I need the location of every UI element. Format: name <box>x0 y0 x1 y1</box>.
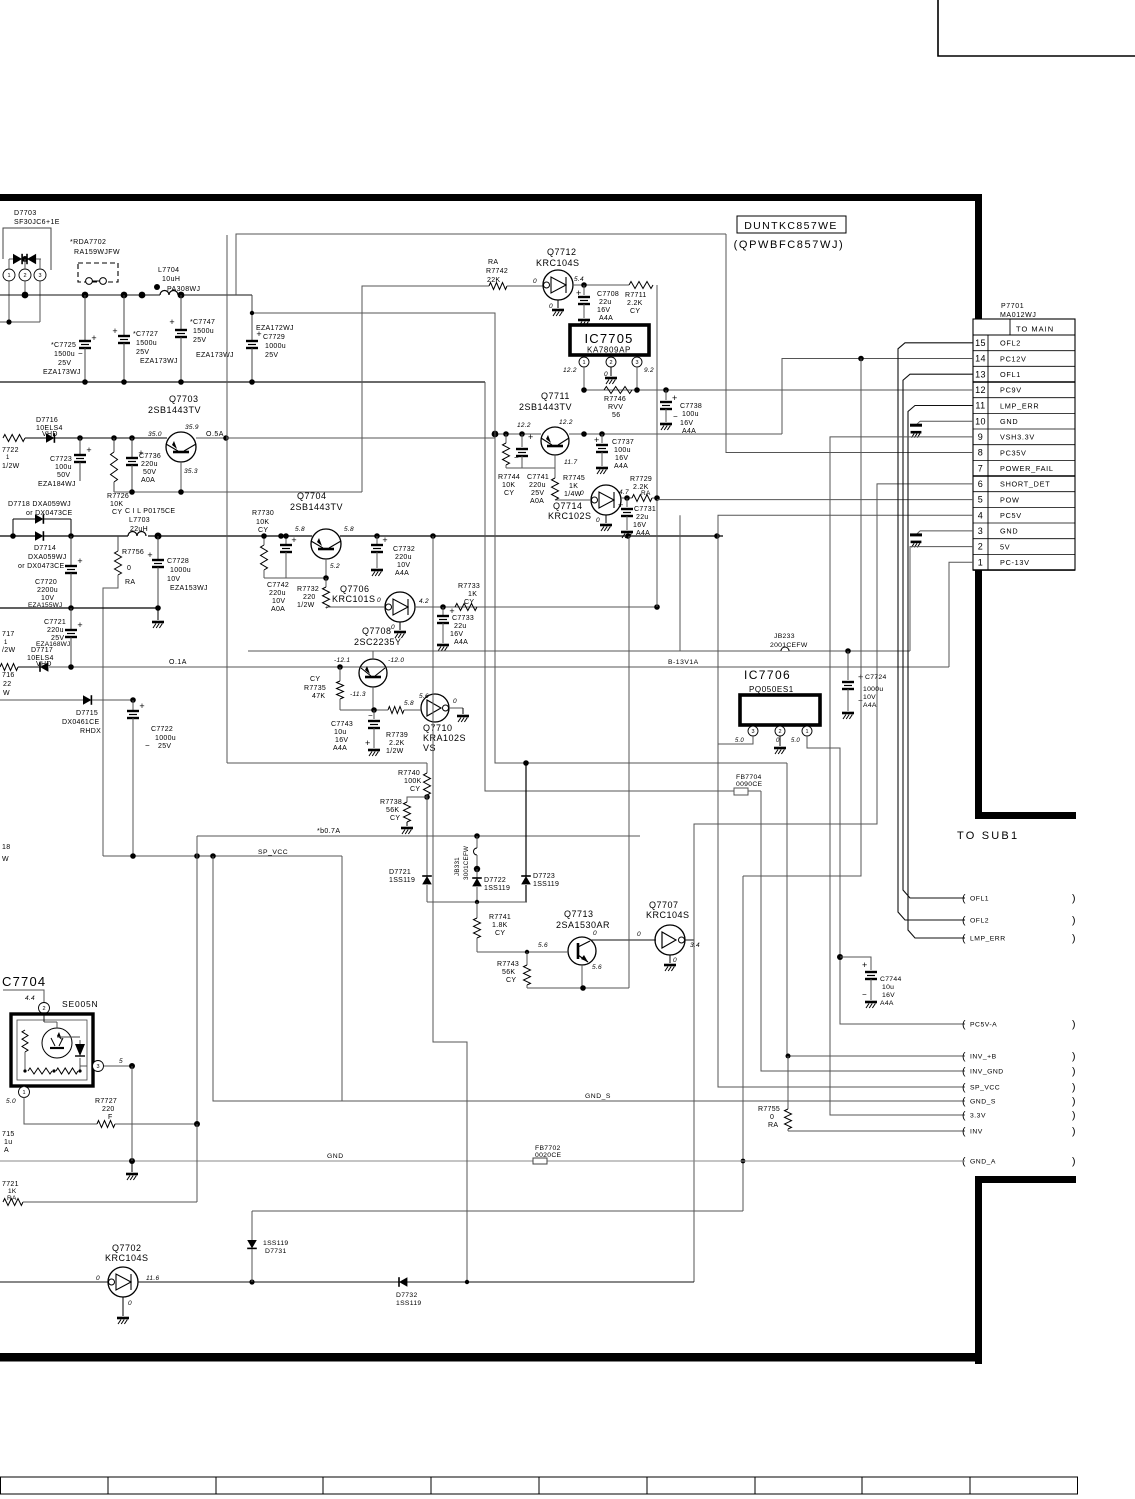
ground at C7728 <box>157 608 159 620</box>
wire GND_S rail x213 <box>213 856 965 1101</box>
transistor Q7709 <box>334 657 404 687</box>
svg-text:SF30JC6+1E: SF30JC6+1E <box>14 219 60 226</box>
svg-text:GND_S: GND_S <box>970 1099 996 1106</box>
wire Q7711 emitter net y434 <box>495 433 541 435</box>
svg-text:50V: 50V <box>143 469 156 476</box>
svg-text:POW: POW <box>1000 495 1020 504</box>
wire Q7713 emitter <box>581 964 583 988</box>
svg-text:D7714: D7714 <box>34 545 56 552</box>
svg-text:5: 5 <box>119 1058 123 1065</box>
svg-text:1SS119: 1SS119 <box>484 885 510 892</box>
wire PC5V rail x718 <box>718 515 973 763</box>
resistor R7742 22K RA <box>486 259 543 290</box>
svg-text:C7728: C7728 <box>167 558 189 565</box>
svg-text:220u: 220u <box>395 554 412 561</box>
border frame TO SUB1 upper stub <box>975 812 1076 819</box>
resistor R7711 2.2K CY <box>625 282 653 316</box>
border frame right bar upper <box>975 194 982 819</box>
svg-text:1000u: 1000u <box>170 567 191 574</box>
svg-text:2: 2 <box>42 1006 45 1012</box>
resistor R7717 partial <box>0 631 40 671</box>
svg-text:1/2W: 1/2W <box>386 748 404 755</box>
svg-text:100K: 100K <box>404 778 422 785</box>
svg-text:6: 6 <box>978 479 983 489</box>
svg-text:INV_+B: INV_+B <box>970 1054 997 1061</box>
capacitor C7728 1000u 10V EZA153WJ <box>147 536 207 608</box>
svg-text:C7738: C7738 <box>680 403 702 410</box>
svg-text:A4A: A4A <box>863 702 877 709</box>
svg-text:IC7706: IC7706 <box>744 668 791 682</box>
svg-text:1K: 1K <box>569 483 578 490</box>
svg-text:KRC101S: KRC101S <box>332 594 376 604</box>
svg-text:3: 3 <box>978 526 983 536</box>
capacitor C7738 100u 16V A4A <box>660 390 702 435</box>
jumper JB331 3001CEFW <box>454 836 480 880</box>
svg-text:(: ( <box>962 915 966 927</box>
svg-text:OFL2: OFL2 <box>970 918 989 925</box>
svg-text:-12.0: -12.0 <box>388 657 404 664</box>
wire PC12V rail x861 down <box>743 359 861 877</box>
diode D7714 DXA059WJ <box>0 531 67 570</box>
svg-text:716: 716 <box>2 672 15 679</box>
svg-text:25V: 25V <box>136 349 149 356</box>
svg-text:FB7704: FB7704 <box>736 774 762 781</box>
svg-text:3.4: 3.4 <box>690 942 700 949</box>
svg-text:3: 3 <box>751 729 754 735</box>
svg-text:10K: 10K <box>110 501 123 508</box>
capacitor C7722 1000u 25V <box>127 697 176 856</box>
capacitor C7736 220u 50V A0A <box>126 438 161 492</box>
svg-text:W: W <box>2 856 9 863</box>
svg-text:C I L P0175CE: C I L P0175CE <box>125 508 175 515</box>
svg-text:R7738: R7738 <box>380 799 402 806</box>
pin3 PC7704 <box>93 1058 136 1072</box>
svg-text:C7729: C7729 <box>263 334 285 341</box>
svg-text:4: 4 <box>978 510 983 520</box>
svg-text:SP_VCC: SP_VCC <box>970 1085 1000 1092</box>
resistor R7743 56K CY <box>497 952 531 988</box>
svg-text:(: ( <box>962 1066 966 1078</box>
svg-text:CY: CY <box>630 308 640 315</box>
svg-text:16V: 16V <box>882 992 895 999</box>
wire SP_VCC y856 <box>103 855 342 857</box>
connector pins 1 2 3 of D7703 <box>3 259 46 322</box>
svg-text:(: ( <box>962 893 966 905</box>
svg-text:CY: CY <box>410 786 420 793</box>
ferrite bead FB7704 0090CE <box>734 774 763 795</box>
transistor Q7708 2SC2235Y <box>354 626 402 647</box>
wire Q7711 collector to PC12V <box>569 433 782 435</box>
svg-text:35.0: 35.0 <box>148 431 162 438</box>
capacitor C7729 1000u 25V EZA172WJ <box>246 295 294 382</box>
svg-text:5V: 5V <box>1000 542 1010 551</box>
svg-text:IC7705: IC7705 <box>584 331 633 346</box>
svg-text:0: 0 <box>580 490 584 497</box>
svg-text:+: + <box>291 535 296 545</box>
wire INV_+B from x787 <box>787 763 965 1056</box>
svg-text:RA: RA <box>488 259 498 266</box>
svg-text:7722: 7722 <box>2 447 19 454</box>
svg-text:1SS119: 1SS119 <box>389 877 415 884</box>
wire PC-13V pin1 <box>949 562 973 667</box>
svg-text:100u: 100u <box>682 411 699 418</box>
wire -13V bus y667 B-13V1A <box>49 666 949 668</box>
svg-text:4.2: 4.2 <box>419 598 429 605</box>
svg-text:W: W <box>3 690 10 697</box>
svg-text:EZA173WJ: EZA173WJ <box>196 352 234 359</box>
wire PC12V riser <box>782 359 973 435</box>
svg-text:2: 2 <box>609 360 612 366</box>
relay RDA7702 RA159WJFW <box>70 239 120 284</box>
border frame right bar lower <box>975 1176 982 1364</box>
capacitor C7731 22u 16V A4A <box>618 498 656 538</box>
ground IC7706 pin2 <box>779 736 781 746</box>
svg-text:1: 1 <box>978 557 983 567</box>
svg-text:CY: CY <box>112 509 122 516</box>
svg-text:D7716: D7716 <box>36 417 58 424</box>
svg-text:DUNTKC857WE: DUNTKC857WE <box>744 220 838 232</box>
ground Q7714 <box>605 515 607 523</box>
wire main 5V bus y536 <box>44 535 128 537</box>
svg-text:): ) <box>1072 1082 1076 1094</box>
wire Q7713 base y952 <box>477 951 568 953</box>
svg-text:9: 9 <box>978 432 983 442</box>
wire x487 rail from bus y382 <box>485 382 734 791</box>
inductor L7704 10uH PA308WJ <box>154 267 200 295</box>
svg-text:100u: 100u <box>55 464 72 471</box>
capacitor C7721 220u 25V EZA168WJ <box>36 608 83 667</box>
wire 0.7A y836 <box>197 835 640 837</box>
svg-text:Q7711: Q7711 <box>541 391 570 401</box>
svg-text:22u: 22u <box>599 299 612 306</box>
svg-text:18: 18 <box>2 844 10 851</box>
svg-text:JB233: JB233 <box>774 633 795 640</box>
capacitor C7741 220u 25V A0A <box>514 432 549 505</box>
svg-text:A4A: A4A <box>599 315 613 322</box>
wire Q7704 base net y578 <box>264 577 326 579</box>
svg-text:C7720: C7720 <box>35 579 57 586</box>
svg-text:10V: 10V <box>41 595 54 602</box>
svg-text:Q7713: Q7713 <box>564 909 594 919</box>
svg-text:POWER_FAIL: POWER_FAIL <box>1000 464 1054 473</box>
svg-text:0090CE: 0090CE <box>736 781 763 788</box>
svg-text:KA7809AP: KA7809AP <box>587 346 631 355</box>
svg-text:5.4: 5.4 <box>574 276 584 283</box>
svg-text:2001CEFW: 2001CEFW <box>770 642 808 649</box>
wire SP_VCC exit from x718 <box>718 744 965 1087</box>
svg-text:10V: 10V <box>167 576 180 583</box>
svg-text:TO MAIN: TO MAIN <box>1016 325 1054 334</box>
svg-text:MA012WJ: MA012WJ <box>1000 312 1037 319</box>
svg-text:B-13V1A: B-13V1A <box>668 659 699 666</box>
capacitor C7715 partial labels <box>2 1131 15 1154</box>
svg-text:GND: GND <box>327 1153 344 1160</box>
ground pin10 <box>910 421 973 437</box>
svg-text:PC12V: PC12V <box>1000 354 1027 363</box>
svg-text:Q7707: Q7707 <box>649 900 679 910</box>
wire PC9V y390 <box>584 389 973 391</box>
svg-text:Q7712: Q7712 <box>547 247 577 257</box>
capacitor C7733 22u 16V A4A <box>437 606 474 651</box>
svg-text:/2W: /2W <box>2 647 15 654</box>
inductor L7703 CILP0175CE 22uH <box>125 508 175 536</box>
svg-text:*C7725: *C7725 <box>51 342 76 349</box>
wire x495 rail from y313 <box>252 313 787 763</box>
IC7705 KA7809AP <box>563 325 654 374</box>
svg-text:2: 2 <box>23 273 26 279</box>
svg-text:KRA102S: KRA102S <box>423 733 466 743</box>
resistor R7721 1K RA <box>2 1124 197 1206</box>
diode D7723 1SS119 <box>521 760 559 902</box>
svg-text:PC9V: PC9V <box>1000 386 1022 395</box>
svg-text:R7735: R7735 <box>304 685 326 692</box>
svg-text:10V: 10V <box>272 598 285 605</box>
svg-text:C7741: C7741 <box>527 474 549 481</box>
svg-text:−: − <box>78 349 83 358</box>
capacitor C7720 2200u 10V EZA155WJ <box>28 536 83 609</box>
svg-text:5: 5 <box>978 495 983 505</box>
svg-text:25V: 25V <box>58 360 71 367</box>
svg-text:10u: 10u <box>882 984 894 991</box>
svg-text:220u: 220u <box>47 627 64 634</box>
wire 5V bus y536 right part <box>340 535 723 537</box>
svg-text:PA308WJ: PA308WJ <box>167 286 200 293</box>
transistor Q7707 KRC104S <box>646 900 700 955</box>
svg-text:INV: INV <box>970 1129 983 1136</box>
svg-text:D7732: D7732 <box>396 1292 418 1299</box>
svg-text:D7723: D7723 <box>533 873 555 880</box>
svg-text:TO SUB1: TO SUB1 <box>957 830 1019 842</box>
svg-text:0: 0 <box>391 624 395 631</box>
svg-text:1: 1 <box>6 455 10 461</box>
svg-text:16V: 16V <box>680 420 693 427</box>
svg-text:GND: GND <box>1000 417 1018 426</box>
svg-text:VSH3.3V: VSH3.3V <box>1000 433 1035 442</box>
resistor R7745 1K 1/4W <box>552 468 586 500</box>
resistor R7744 10K CY <box>498 434 520 497</box>
svg-text:1000u: 1000u <box>155 735 176 742</box>
ground Q7706 <box>399 622 401 630</box>
svg-text:22u: 22u <box>454 623 467 630</box>
wire Q7702 input <box>0 1281 108 1283</box>
wire IC7706 pin1 to PC5V-A <box>807 736 965 1024</box>
transistor Q7713 2SA1530AR <box>538 909 610 971</box>
svg-text:PC35V: PC35V <box>1000 448 1027 457</box>
svg-text:25V: 25V <box>265 352 278 359</box>
ground Q7712 emitter <box>557 300 559 308</box>
svg-text:1500u: 1500u <box>136 340 157 347</box>
transistor Q7704 2SB1443TV <box>290 491 354 570</box>
svg-text:GND_S: GND_S <box>585 1093 611 1100</box>
resistor R7739 2.2K 1/2W <box>386 700 414 755</box>
svg-text:1SS119: 1SS119 <box>533 881 559 888</box>
svg-text:3.3V: 3.3V <box>970 1113 986 1120</box>
svg-text:25V: 25V <box>531 490 544 497</box>
svg-text:-11.3: -11.3 <box>350 691 366 698</box>
svg-text:): ) <box>1072 1066 1076 1078</box>
svg-text:0: 0 <box>377 597 381 604</box>
diode D7715 DX0461CE RHDX <box>0 695 133 735</box>
svg-text:5.0: 5.0 <box>6 1098 16 1105</box>
wire Q7703 emitter out 0.5A <box>196 437 495 439</box>
diode D7716 10ELS4 VHD <box>25 417 63 443</box>
svg-text:A4A: A4A <box>395 570 409 577</box>
svg-text:+: + <box>169 317 174 327</box>
capacitor C7743 10u 16V A4A <box>331 710 380 756</box>
resistor R7741 1.8K CY <box>474 902 512 952</box>
transistor Q7710 KRA102S VS <box>404 693 469 753</box>
svg-text:(: ( <box>962 1019 966 1031</box>
wire OFL1 pin13 to exit <box>903 374 973 898</box>
svg-text:OFL2: OFL2 <box>1000 339 1021 348</box>
svg-text:0: 0 <box>549 303 553 310</box>
svg-text:11: 11 <box>975 401 985 411</box>
svg-text:3: 3 <box>38 273 41 279</box>
svg-text:14: 14 <box>975 354 986 364</box>
diode D7721 1SS119 <box>389 797 432 902</box>
resistor R7740 100K CY <box>227 763 431 795</box>
svg-text:15: 15 <box>975 338 986 348</box>
svg-text:1000u: 1000u <box>265 343 286 350</box>
resistor R7716 partial <box>2 672 15 697</box>
svg-text:9.2: 9.2 <box>644 367 654 374</box>
wire PC35V vertical <box>726 234 973 453</box>
svg-text:*b0.7A: *b0.7A <box>317 828 340 835</box>
svg-text:1u: 1u <box>4 1139 12 1146</box>
wire x743 down to Q7702 area <box>742 876 744 1211</box>
svg-text:22K: 22K <box>487 277 500 284</box>
svg-text:): ) <box>1072 1126 1076 1138</box>
ferrite bead FB7702 0020CE <box>533 1145 562 1164</box>
wire pc7704 pin3 to gnd <box>131 1066 133 1161</box>
svg-text:0: 0 <box>128 1300 132 1307</box>
svg-text:+: + <box>365 738 370 748</box>
wire left rail x227 <box>226 235 228 763</box>
svg-text:-12.1: -12.1 <box>334 657 350 664</box>
svg-text:D7703: D7703 <box>14 210 37 217</box>
svg-text:+: + <box>147 550 152 560</box>
svg-text:OFL1: OFL1 <box>1000 370 1021 379</box>
capacitor C7724 1000u 10V A4A <box>842 651 887 719</box>
svg-text:7721: 7721 <box>2 1181 19 1188</box>
wire raw DC bus y295 <box>0 294 160 296</box>
svg-text:5.0: 5.0 <box>735 738 744 744</box>
svg-text:KRC104S: KRC104S <box>105 1253 149 1263</box>
svg-text:+: + <box>594 435 599 445</box>
diode block D7703 SF30JC6+1E <box>3 210 60 270</box>
wire R7711 to POW net vertical x657 <box>656 285 658 607</box>
svg-text:0: 0 <box>127 565 131 572</box>
wire AC input stub <box>0 321 40 323</box>
wire IC7705 pin1 to PC9V net <box>583 367 585 390</box>
wire y1211 link <box>252 1210 743 1212</box>
svg-text:16V: 16V <box>615 455 628 462</box>
svg-text:*C7727: *C7727 <box>133 331 158 338</box>
svg-text:EZA172WJ: EZA172WJ <box>256 325 294 332</box>
svg-text:PC5V: PC5V <box>1000 511 1022 520</box>
svg-text:35.3: 35.3 <box>184 468 198 475</box>
capacitor C7725 1500u 25V EZA173WJ <box>43 295 97 382</box>
svg-text:VS: VS <box>423 743 436 753</box>
svg-text:A4A: A4A <box>454 639 468 646</box>
wire diode commons y902 <box>427 901 527 903</box>
border frame bottom bar <box>0 1353 982 1362</box>
pin1 PC7704 <box>6 1086 97 1124</box>
connector P7701 MA012WJ table <box>973 303 1075 570</box>
title block corner top right <box>938 0 1135 56</box>
svg-text:0: 0 <box>673 957 677 964</box>
svg-text:R7732: R7732 <box>297 586 319 593</box>
svg-text:717: 717 <box>2 631 15 638</box>
svg-text:Q7708: Q7708 <box>362 626 392 636</box>
svg-text:22u: 22u <box>636 514 649 521</box>
svg-text:0: 0 <box>533 278 537 285</box>
svg-text:+: + <box>528 432 533 442</box>
ground Q7702 <box>122 1297 124 1316</box>
svg-text:CY: CY <box>258 527 268 534</box>
svg-text:): ) <box>1072 933 1076 945</box>
svg-text:12.2: 12.2 <box>563 367 577 374</box>
svg-text:P7701: P7701 <box>1001 303 1024 310</box>
diode D7731 1SS119 <box>247 1211 288 1282</box>
svg-text:R7730: R7730 <box>252 510 274 517</box>
wire gnd bus y608 <box>0 607 158 609</box>
svg-text:EZA184WJ: EZA184WJ <box>38 481 76 488</box>
wire Q7703 collector y438 <box>55 437 167 439</box>
photocoupler PC7704 SE005N <box>2 974 98 1086</box>
svg-text:5.8: 5.8 <box>344 526 354 533</box>
svg-text:PC5V-A: PC5V-A <box>970 1022 997 1029</box>
svg-text:56: 56 <box>612 412 620 419</box>
svg-text:RA: RA <box>125 579 135 586</box>
svg-text:Q7714: Q7714 <box>553 501 583 511</box>
transistor Q7706 KRC101S <box>332 584 429 622</box>
svg-text:C7721: C7721 <box>44 619 66 626</box>
diode D7717 10ELS4 VHD <box>27 647 54 672</box>
svg-text:3: 3 <box>635 360 638 366</box>
svg-text:5.0: 5.0 <box>791 738 800 744</box>
border frame top bar <box>0 194 982 201</box>
diode D7732 1SS119 <box>396 1277 421 1307</box>
svg-text:R7746: R7746 <box>604 396 626 403</box>
wire 5V pin2 <box>910 547 973 651</box>
svg-text:4.7: 4.7 <box>619 489 629 496</box>
svg-text:A4A: A4A <box>636 530 650 537</box>
IC7706 PQ050ES1 <box>735 668 820 744</box>
svg-text:CY: CY <box>310 676 320 683</box>
svg-text:1000u: 1000u <box>863 686 883 693</box>
svg-text:EZA153WJ: EZA153WJ <box>170 585 208 592</box>
svg-text:D7718 DXA059WJ: D7718 DXA059WJ <box>8 501 71 508</box>
svg-text:(: ( <box>962 1096 966 1108</box>
capacitor C7747 1500u 25V EZA173WJ <box>169 295 233 382</box>
svg-text:10u: 10u <box>334 729 347 736</box>
wire Q7706 input <box>325 607 327 608</box>
svg-text:): ) <box>1072 915 1076 927</box>
svg-text:1: 1 <box>7 273 10 279</box>
capacitor C7737 100u 16V A4A <box>594 434 634 474</box>
svg-text:PC-13V: PC-13V <box>1000 558 1030 567</box>
svg-text:Q7710: Q7710 <box>423 723 453 733</box>
svg-text:DXA059WJ: DXA059WJ <box>28 554 67 561</box>
svg-text:SHORT_DET: SHORT_DET <box>1000 480 1050 489</box>
svg-text:R7744: R7744 <box>498 474 520 481</box>
capacitor C7744 10u 16V A4A <box>840 957 902 1008</box>
svg-text:2200u: 2200u <box>37 587 58 594</box>
svg-text:2: 2 <box>978 542 983 552</box>
transistor Q7702 KRC104S <box>96 1243 159 1297</box>
svg-text:CY: CY <box>390 815 400 822</box>
